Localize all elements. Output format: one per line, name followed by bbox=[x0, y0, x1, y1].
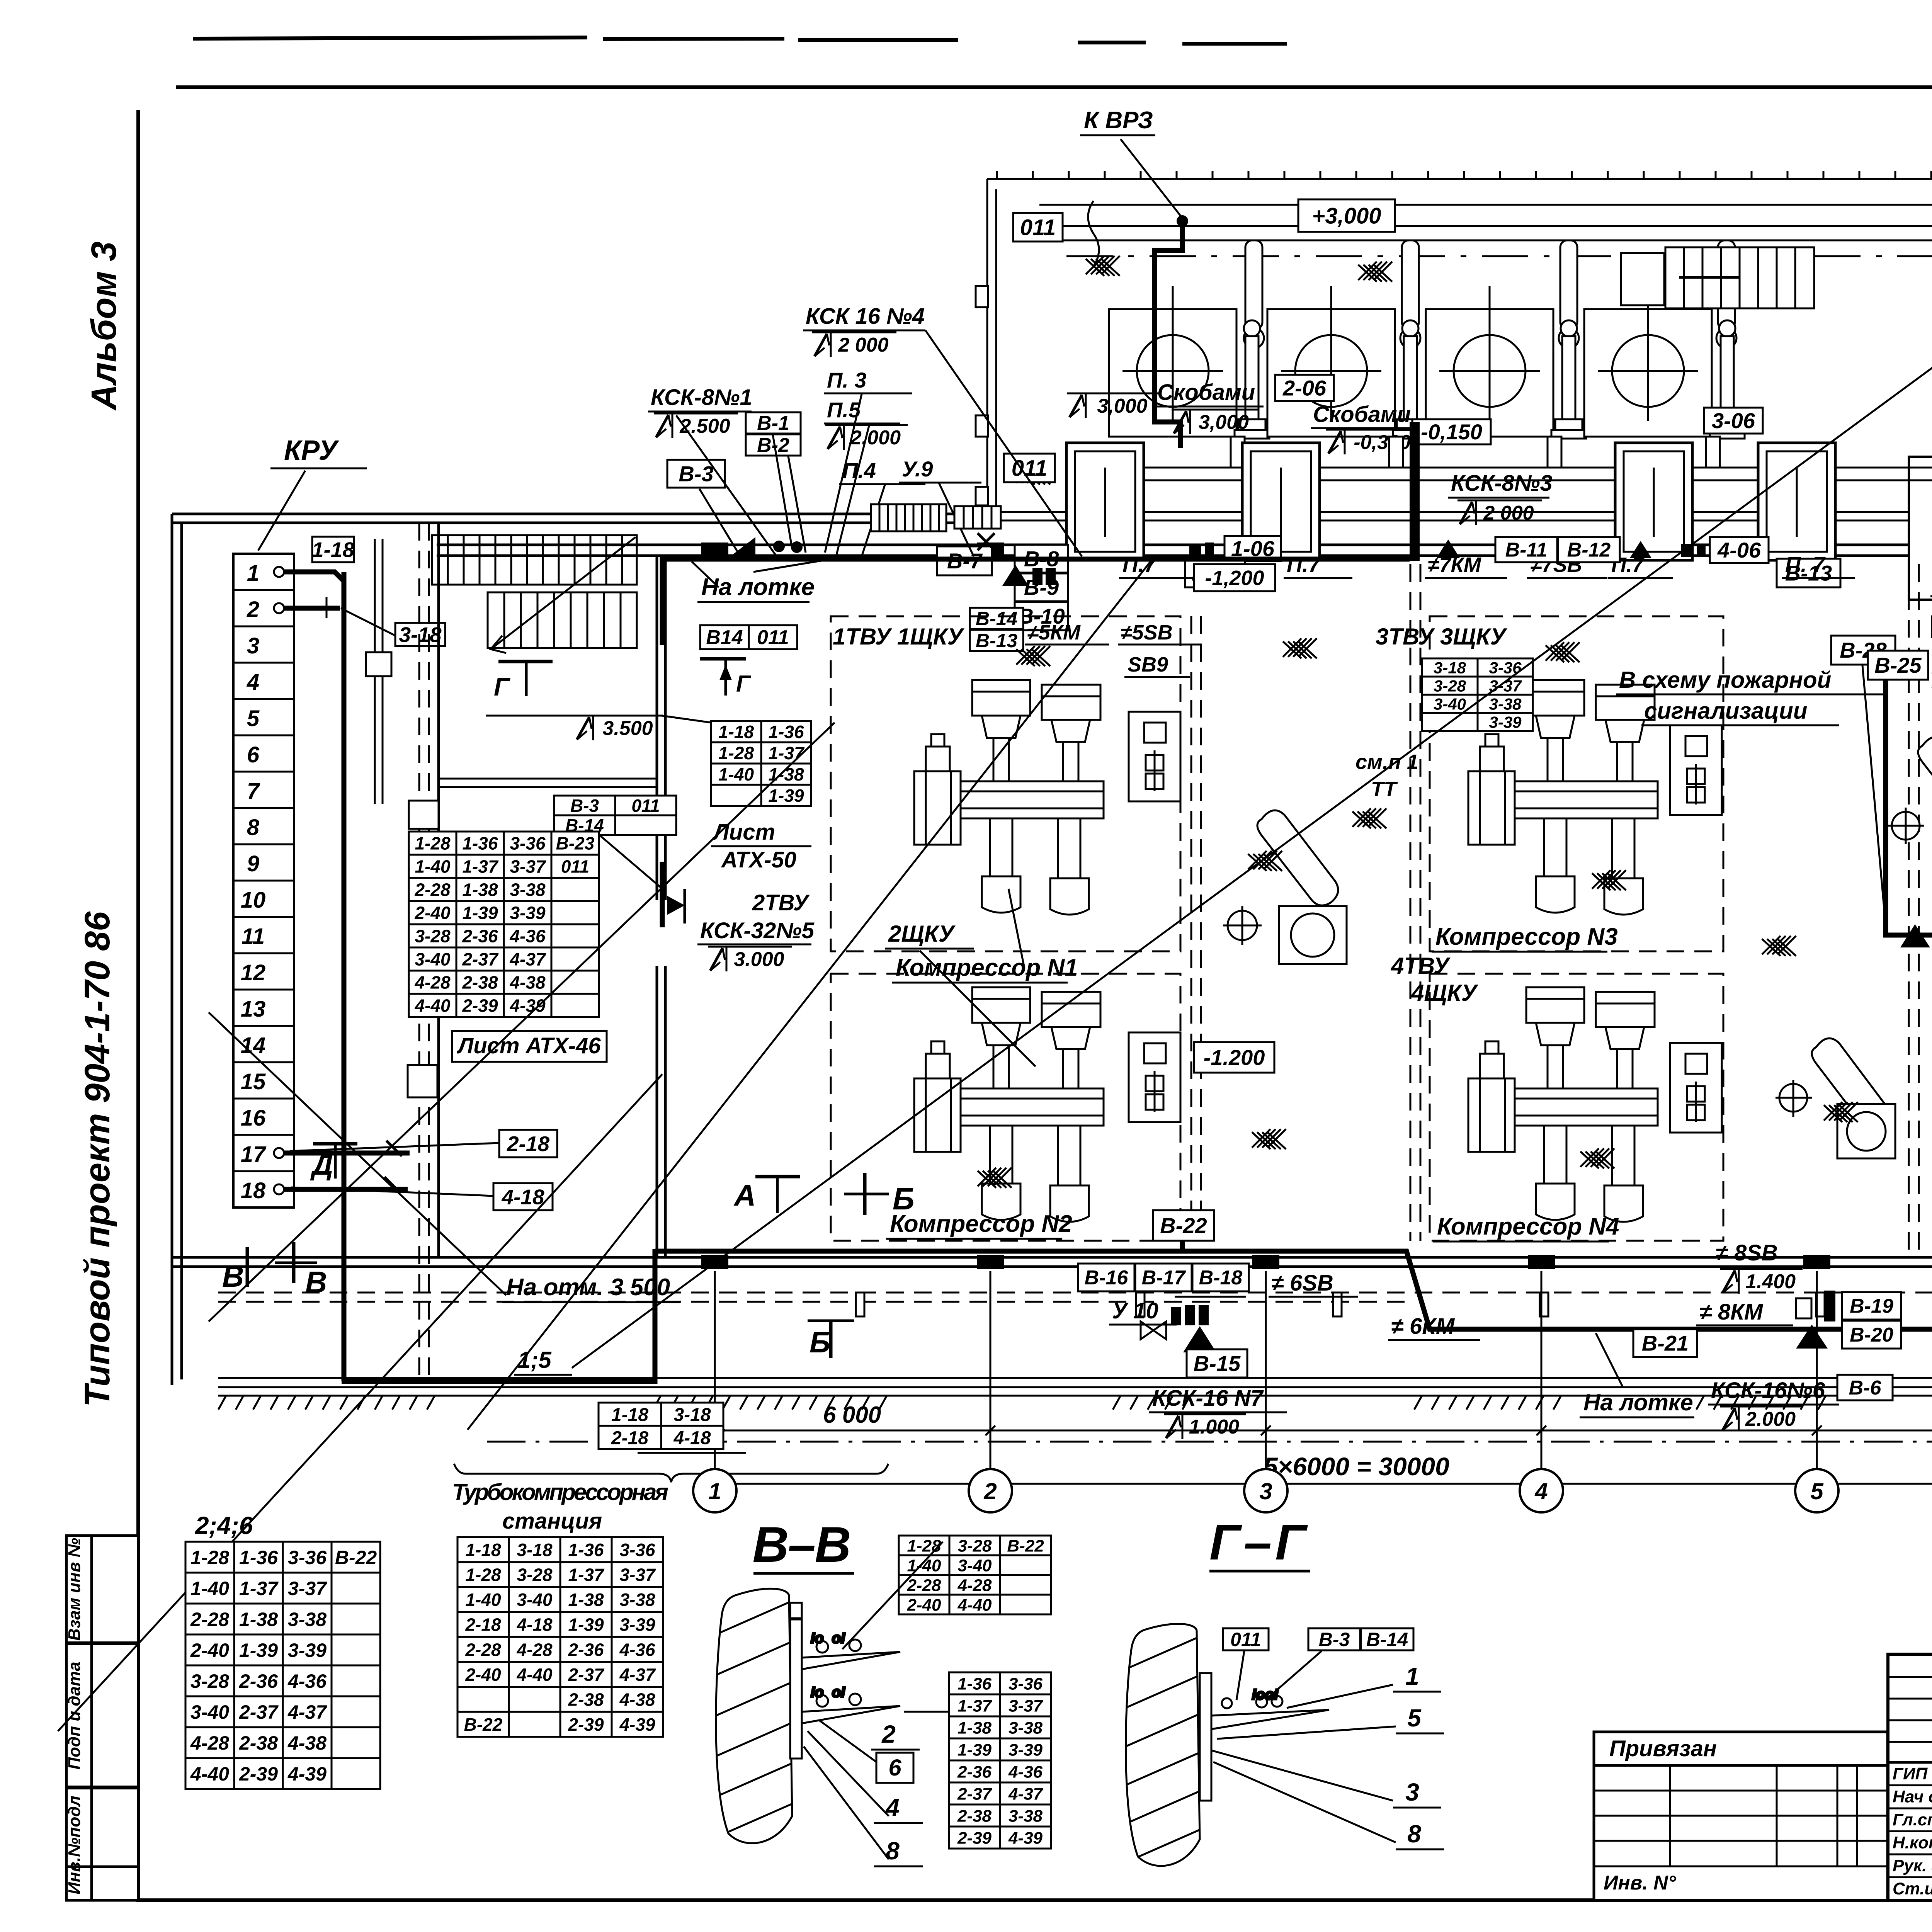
small wall stubs below south wall bbox=[856, 1293, 1932, 1316]
svg-text:В-21: В-21 bbox=[1642, 1331, 1689, 1355]
svg-text:4-37: 4-37 bbox=[287, 1701, 327, 1723]
Лист АТХ-46 caption box bbox=[452, 1031, 607, 1062]
elevation КСК-8№1 bbox=[654, 413, 738, 438]
west outer wall bbox=[172, 514, 182, 1385]
svg-text:3-18: 3-18 bbox=[1434, 659, 1466, 677]
valve symbol near У9 bbox=[978, 533, 995, 550]
svg-text:1-39: 1-39 bbox=[768, 786, 804, 806]
svg-text:АТХ-50: АТХ-50 bbox=[721, 847, 796, 872]
svg-text:4-28: 4-28 bbox=[516, 1639, 552, 1660]
text ≠ 6КМ bbox=[1388, 1314, 1480, 1340]
svg-text:7: 7 bbox=[247, 779, 260, 804]
text Компрессор N2 bbox=[886, 1211, 1072, 1239]
north wall of КРУ room bbox=[172, 514, 987, 523]
overhead duct lines bbox=[1039, 205, 1932, 256]
turbo hall west wall bbox=[976, 179, 996, 514]
svg-text:Д: Д bbox=[310, 1148, 333, 1181]
letter Б cut upper bbox=[893, 1182, 915, 1216]
label box В-22 bbox=[1153, 1210, 1214, 1241]
svg-text:2-36: 2-36 bbox=[239, 1670, 278, 1692]
long line from 3.500 bbox=[486, 715, 575, 717]
svg-text:10: 10 bbox=[241, 888, 266, 913]
svg-text:ГИП: ГИП bbox=[1893, 1764, 1928, 1783]
text На лотке bbox=[1580, 1389, 1694, 1417]
svg-text:1-37: 1-37 bbox=[239, 1578, 279, 1599]
svg-text:Гл.спец: Гл.спец bbox=[1893, 1810, 1932, 1829]
text КСК-16 N7 bbox=[1149, 1386, 1287, 1412]
text 4ЩКУ bbox=[1411, 980, 1479, 1006]
svg-text:Г: Г bbox=[494, 672, 510, 701]
svg-text:-1,200: -1,200 bbox=[1205, 566, 1264, 590]
floor channel square 3 bbox=[1615, 443, 1692, 560]
text КСК-8№3 bbox=[1448, 471, 1553, 498]
floor channel square 2 bbox=[1242, 443, 1320, 560]
label box В-11 bbox=[1495, 537, 1557, 562]
label box В-14 bbox=[970, 608, 1023, 629]
svg-text:3-38: 3-38 bbox=[510, 880, 545, 900]
svg-text:1-28: 1-28 bbox=[718, 743, 754, 763]
svg-text:3-06: 3-06 bbox=[1712, 408, 1755, 433]
torn page edge line segments top bbox=[193, 37, 1932, 87]
svg-text:Б: Б bbox=[810, 1326, 830, 1359]
main hall north wall bbox=[437, 545, 1932, 556]
В-В position labels 2 6 4 8 bbox=[871, 1720, 923, 1866]
svg-text:4-40: 4-40 bbox=[190, 1763, 229, 1785]
svg-text:2-40: 2-40 bbox=[414, 903, 450, 923]
svg-text:4-18: 4-18 bbox=[673, 1428, 711, 1448]
svg-text:4-37: 4-37 bbox=[619, 1665, 656, 1685]
turbo compressor unit 1 bbox=[1109, 309, 1269, 439]
svg-text:Нач отд.: Нач отд. bbox=[1893, 1787, 1932, 1806]
label box 1-18 bbox=[312, 537, 354, 562]
text ≠ 8КМ bbox=[1696, 1299, 1793, 1325]
svg-text:2-28: 2-28 bbox=[906, 1576, 941, 1595]
compressor N3 bbox=[1468, 680, 1658, 915]
lower pipe band of turbo hall bbox=[1078, 437, 1932, 480]
label box В-25 bbox=[1868, 651, 1928, 680]
crosshatch mark bbox=[1634, 260, 1668, 280]
svg-text:В-25: В-25 bbox=[1874, 653, 1922, 677]
Г-Г leaders from boxes bbox=[1236, 1651, 1321, 1700]
stairs block in hall bbox=[1621, 247, 1814, 308]
svg-text:1-18: 1-18 bbox=[718, 722, 754, 742]
label box 4-18 bbox=[493, 1183, 553, 1210]
svg-text:ТТ: ТТ bbox=[1371, 777, 1398, 801]
text П.7 bbox=[1284, 552, 1352, 578]
black flag symbol КСК-32 bbox=[667, 896, 685, 915]
svg-text:2-38: 2-38 bbox=[957, 1806, 992, 1825]
text 4ТВУ bbox=[1391, 953, 1451, 979]
table 1-18 3-18 bottom bbox=[599, 1403, 723, 1449]
svg-text:9: 9 bbox=[247, 851, 259, 876]
machine bay Компрессор N3 dashed outline bbox=[1430, 616, 1723, 951]
text П.4 bbox=[839, 458, 925, 484]
svg-text:Лист АТХ-46: Лист АТХ-46 bbox=[456, 1033, 601, 1058]
long diagonal leader from В-3 area to На отм bbox=[209, 1012, 506, 1295]
text КСК-8№1 bbox=[648, 385, 752, 412]
svg-text:В-3: В-3 bbox=[570, 796, 599, 816]
machine bay Компрессор N2 dashed outline bbox=[831, 974, 1180, 1241]
leaders П3 П5 В1 В2 down to wall bbox=[676, 394, 974, 556]
svg-text:Ст.инж: Ст.инж bbox=[1893, 1879, 1932, 1898]
svg-text:3-40: 3-40 bbox=[517, 1590, 552, 1610]
svg-text:2-37: 2-37 bbox=[462, 949, 498, 969]
svg-text:В-6: В-6 bbox=[1849, 1377, 1882, 1399]
svg-text:3-37: 3-37 bbox=[1489, 677, 1522, 695]
diagonal vent duct right-strip lower bbox=[1776, 1038, 1895, 1158]
svg-text:Инв.№подл: Инв.№подл bbox=[65, 1796, 84, 1895]
svg-text:4-38: 4-38 bbox=[509, 973, 545, 993]
letter Г cut mark bbox=[736, 671, 752, 697]
svg-text:1-39: 1-39 bbox=[239, 1639, 278, 1661]
text 2ЩКУ bbox=[885, 921, 974, 949]
black wiggle symbols on wall row bbox=[1189, 539, 1706, 558]
svg-text:1-39: 1-39 bbox=[462, 903, 498, 923]
label box В-7 bbox=[937, 546, 992, 575]
label box В-9 bbox=[1015, 573, 1068, 601]
svg-text:3-37: 3-37 bbox=[619, 1565, 656, 1585]
svg-text:В-23: В-23 bbox=[556, 833, 595, 854]
svg-text:5: 5 bbox=[1407, 1704, 1422, 1732]
label box -0,150 bbox=[1412, 419, 1491, 444]
svg-text:У 10: У 10 bbox=[1112, 1298, 1158, 1323]
svg-text:4-39: 4-39 bbox=[287, 1763, 327, 1785]
svg-text:Іo oІ: Іo oІ bbox=[811, 1630, 845, 1646]
text 2;12;17 bbox=[638, 1425, 746, 1453]
svg-text:см.п 1: см.п 1 bbox=[1355, 750, 1418, 774]
thick cable from К ВРЗ down to channel bbox=[1155, 224, 1182, 448]
label box В-19 bbox=[1842, 1292, 1901, 1320]
svg-text:-0,150: -0,150 bbox=[1421, 420, 1482, 444]
svg-text:1.400: 1.400 bbox=[1745, 1270, 1796, 1293]
svg-text:Типовой проект 904-1-70 86: Типовой проект 904-1-70 86 bbox=[78, 911, 117, 1407]
thick cable from КРУ row 18 bbox=[284, 1187, 408, 1192]
text Скобами bbox=[1155, 380, 1264, 406]
axis circle 4 bbox=[1520, 1469, 1563, 1512]
lower right room of hall with round unit bbox=[1909, 457, 1932, 600]
axis circle 1 bbox=[693, 1469, 736, 1512]
svg-text:Іo oІ: Іo oІ bbox=[811, 1684, 845, 1701]
svg-text:2.500: 2.500 bbox=[679, 415, 730, 437]
leader На лотке bbox=[753, 559, 831, 572]
svg-text:В-17: В-17 bbox=[1142, 1267, 1186, 1289]
text 3ТВУ 3ЩКУ bbox=[1376, 624, 1507, 650]
svg-text:4-39: 4-39 bbox=[1008, 1828, 1043, 1847]
bay control cabinet bbox=[1129, 1032, 1180, 1122]
label box -1.200 mid bbox=[1194, 1042, 1274, 1073]
svg-text:КСК-16 N7: КСК-16 N7 bbox=[1152, 1386, 1264, 1411]
cut mark Б lower left bbox=[808, 1321, 854, 1358]
svg-text:16: 16 bbox=[241, 1105, 266, 1131]
svg-text:На отм. 3 500: На отм. 3 500 bbox=[506, 1274, 670, 1301]
svg-text:12: 12 bbox=[241, 960, 266, 985]
svg-text:2 000: 2 000 bbox=[838, 334, 888, 356]
svg-text:3-28: 3-28 bbox=[517, 1565, 552, 1585]
svg-text:4-36: 4-36 bbox=[1008, 1762, 1043, 1781]
svg-text:На лотке: На лотке bbox=[1583, 1389, 1693, 1415]
table Лист АТХ-46 cables bbox=[409, 832, 599, 1017]
svg-text:5: 5 bbox=[1810, 1478, 1824, 1504]
svg-text:1-39: 1-39 bbox=[568, 1615, 604, 1635]
svg-text:8: 8 bbox=[886, 1837, 900, 1865]
wall piers on south wall bbox=[701, 1255, 1830, 1269]
text станция bbox=[502, 1509, 602, 1534]
corridor dashed verticals x3655 bbox=[1191, 564, 1919, 1256]
leader from АТХ-46 table bbox=[599, 835, 662, 889]
svg-text:В-22: В-22 bbox=[1160, 1213, 1207, 1238]
crosshatch mark bbox=[1592, 870, 1626, 890]
svg-text:≠ 8SВ: ≠ 8SВ bbox=[1716, 1240, 1778, 1265]
text ≠ 8SВ bbox=[1700, 1240, 1801, 1267]
svg-text:2-18: 2-18 bbox=[611, 1428, 648, 1448]
label box В-3 Г-Г bbox=[1308, 1628, 1360, 1650]
label box В-6 lower bbox=[1837, 1375, 1893, 1400]
crosshatch mark bbox=[1358, 262, 1392, 282]
svg-text:3ТВУ 3ЩКУ: 3ТВУ 3ЩКУ bbox=[1376, 624, 1507, 650]
svg-text:8: 8 bbox=[1407, 1820, 1421, 1848]
text К ВРЗ bbox=[1080, 107, 1155, 135]
dashed cable riser column x1085-1110 bbox=[419, 523, 429, 1379]
svg-text:1-18: 1-18 bbox=[465, 1540, 501, 1560]
turbo compressor unit 3 bbox=[1426, 309, 1586, 439]
cut mark Г lower bbox=[498, 662, 553, 696]
svg-text:2-36: 2-36 bbox=[462, 926, 498, 946]
svg-text:SВ9: SВ9 bbox=[1128, 653, 1168, 676]
svg-text:В-16: В-16 bbox=[1085, 1267, 1129, 1289]
svg-text:В-19: В-19 bbox=[1850, 1295, 1893, 1318]
axis circle 2 bbox=[969, 1469, 1012, 1512]
svg-text:В: В bbox=[222, 1259, 244, 1293]
elevation КСК-16№7 bbox=[1164, 1414, 1246, 1439]
brace under tables bbox=[454, 1464, 888, 1482]
letter А cut bbox=[733, 1178, 756, 1212]
cut mark Д upper left bbox=[313, 1144, 357, 1179]
crosshatch mark bbox=[1352, 808, 1386, 828]
label box В-20 bbox=[1842, 1321, 1901, 1349]
svg-text:Подп и дата: Подп и дата bbox=[65, 1662, 84, 1769]
elevation КСК-8№3 bbox=[1458, 500, 1542, 525]
svg-text:В-22: В-22 bbox=[1007, 1536, 1044, 1555]
svg-text:4: 4 bbox=[885, 1794, 900, 1821]
svg-text:2ЩКУ: 2ЩКУ bbox=[888, 921, 956, 947]
crosshatch mark bbox=[1824, 1102, 1858, 1122]
svg-text:1-36: 1-36 bbox=[957, 1674, 992, 1693]
crosshatch mark bbox=[1283, 638, 1317, 658]
letter В cut 2 bbox=[305, 1265, 327, 1299]
thick cable along north wall bbox=[662, 559, 1410, 645]
svg-text:К ВРЗ: К ВРЗ bbox=[1084, 107, 1153, 134]
thick bottom horizontal from trunk with step up bbox=[342, 1249, 655, 1381]
svg-text:2;4;6: 2;4;6 bbox=[195, 1512, 253, 1539]
svg-text:011: 011 bbox=[757, 626, 789, 649]
Привязан box bbox=[1594, 1732, 1888, 1765]
compressor N1 bbox=[914, 680, 1104, 915]
svg-text:≠5КМ: ≠5КМ bbox=[1027, 621, 1081, 644]
svg-text:4-38: 4-38 bbox=[619, 1689, 655, 1709]
text 2;4;6 bbox=[191, 1512, 274, 1542]
svg-text:ІooІ: ІooІ bbox=[1252, 1687, 1279, 1703]
svg-text:2-39: 2-39 bbox=[239, 1763, 278, 1785]
section title В-В bbox=[753, 1516, 854, 1573]
caption Турбокомпрессорная bbox=[452, 1479, 668, 1505]
svg-text:4-40: 4-40 bbox=[516, 1665, 552, 1685]
label box 1-06 bbox=[1225, 536, 1281, 561]
leader КСК16№4 bbox=[925, 330, 1082, 556]
А axis long lower lines bbox=[218, 1378, 1932, 1387]
svg-text:В-14: В-14 bbox=[976, 608, 1017, 629]
signature block bbox=[1888, 1654, 1932, 1900]
black triangle junction SB3.1 bbox=[1900, 924, 1930, 947]
svg-text:3-40: 3-40 bbox=[415, 949, 450, 969]
svg-text:3-39: 3-39 bbox=[1009, 1740, 1043, 1759]
duct risers between machines bbox=[1244, 240, 1736, 348]
svg-text:2-38: 2-38 bbox=[462, 973, 498, 993]
leader 2ЩКУ bbox=[920, 951, 1036, 1066]
Г-Г rack and bracket bbox=[1200, 1673, 1329, 1801]
letter В cut 1 bbox=[222, 1259, 244, 1293]
label box В-1 bbox=[746, 412, 801, 435]
svg-text:2-28: 2-28 bbox=[190, 1609, 229, 1630]
text КСК-16№6 bbox=[1708, 1378, 1839, 1405]
svg-text:В-12: В-12 bbox=[1567, 539, 1611, 561]
svg-text:П.7: П.7 bbox=[1287, 552, 1321, 577]
svg-text:3.500: 3.500 bbox=[602, 717, 653, 740]
svg-text:1-36: 1-36 bbox=[768, 722, 804, 742]
crosshatch mark bbox=[1086, 256, 1120, 276]
turbo hall top edge with ticks bbox=[987, 171, 1932, 179]
svg-text:6: 6 bbox=[247, 742, 260, 767]
У10 valve bowtie bbox=[1141, 1321, 1166, 1339]
text Скобами bbox=[1311, 402, 1414, 428]
svg-text:2-40: 2-40 bbox=[190, 1639, 229, 1661]
svg-text:1: 1 bbox=[1405, 1662, 1419, 1690]
svg-text:3-37: 3-37 bbox=[510, 857, 546, 877]
В-В leaders bbox=[804, 1542, 949, 1859]
long diagonal leaders across lower-left bbox=[58, 317, 1932, 1731]
svg-text:1-18: 1-18 bbox=[611, 1405, 648, 1425]
svg-text:1: 1 bbox=[247, 561, 259, 586]
svg-text:3-39: 3-39 bbox=[510, 903, 545, 923]
label box В-12 bbox=[1558, 537, 1620, 562]
inventory stamp column table bbox=[66, 1536, 138, 1900]
svg-text:Компрессор N4: Компрессор N4 bbox=[1437, 1213, 1619, 1240]
svg-text:Рук. гр.: Рук. гр. bbox=[1893, 1856, 1932, 1875]
svg-text:3-18: 3-18 bbox=[517, 1540, 552, 1560]
diagonal vent duct mid-left bbox=[1223, 810, 1347, 964]
svg-text:3.000: 3.000 bbox=[734, 948, 784, 971]
main hall south wall bbox=[172, 1257, 1932, 1267]
text 1ТВУ 1ЩКУ bbox=[833, 624, 964, 650]
text ТТ bbox=[1371, 777, 1398, 801]
svg-text:1;5: 1;5 bbox=[518, 1347, 552, 1373]
svg-text:3-37: 3-37 bbox=[1009, 1696, 1044, 1715]
svg-text:Скобами: Скобами bbox=[1313, 402, 1411, 427]
svg-text:1-28: 1-28 bbox=[907, 1536, 941, 1555]
svg-text:3-28: 3-28 bbox=[1434, 677, 1466, 695]
black junction bottom middle-right bbox=[1796, 1325, 1828, 1349]
svg-text:Компрессор N3: Компрессор N3 bbox=[1435, 923, 1618, 950]
table В-3 В-14 011 bbox=[554, 796, 676, 835]
section title Г-Г bbox=[1209, 1514, 1310, 1571]
text 2ТВУ bbox=[752, 890, 810, 915]
svg-text:3: 3 bbox=[1405, 1778, 1419, 1806]
svg-text:3-39: 3-39 bbox=[288, 1639, 327, 1661]
svg-text:1-38: 1-38 bbox=[957, 1718, 992, 1737]
axis circle 3 bbox=[1244, 1469, 1287, 1512]
В-В rack and brackets bbox=[790, 1603, 900, 1759]
svg-text:1-37: 1-37 bbox=[462, 857, 498, 877]
svg-text:1: 1 bbox=[708, 1478, 721, 1504]
svg-text:3-38: 3-38 bbox=[619, 1590, 655, 1610]
svg-text:В схему пожарной: В схему пожарной bbox=[1619, 667, 1831, 693]
thick cable bundle bar between channels bbox=[1410, 422, 1420, 561]
text см.п 1 bbox=[1355, 750, 1418, 774]
axis А dash-dot line bbox=[487, 1441, 1932, 1443]
svg-text:3-39: 3-39 bbox=[1489, 713, 1522, 731]
text Компрессор N4 bbox=[1433, 1213, 1619, 1242]
svg-text:Взам инв №: Взам инв № bbox=[65, 1538, 84, 1641]
thick cable SB run vertical bbox=[1886, 657, 1932, 935]
text П. 3 bbox=[824, 368, 912, 393]
svg-text:КСК-8№1: КСК-8№1 bbox=[651, 385, 752, 410]
crosshatch mark bbox=[1580, 1148, 1614, 1168]
svg-text:П.7: П.7 bbox=[1122, 552, 1157, 577]
elevation КСК16№4 bbox=[812, 332, 896, 357]
svg-text:1-36: 1-36 bbox=[239, 1547, 278, 1568]
svg-text:4-36: 4-36 bbox=[509, 926, 545, 946]
thick stub at 2ТВУ bbox=[660, 862, 665, 927]
junction square 1 on riser bbox=[366, 652, 391, 676]
svg-text:Компрессор N1: Компрессор N1 bbox=[896, 954, 1078, 981]
svg-text:В-3: В-3 bbox=[1319, 1629, 1350, 1650]
svg-text:В14: В14 bbox=[706, 626, 743, 649]
text ≠5SВ bbox=[1118, 621, 1202, 645]
elevation -0,300 bbox=[1326, 430, 1420, 454]
dim 6000 bbox=[823, 1402, 881, 1428]
elevation 3,000 in hall bbox=[1067, 393, 1159, 418]
thick cable from КРУ row 17 bbox=[284, 1151, 410, 1156]
svg-text:4-36: 4-36 bbox=[287, 1670, 327, 1692]
text КМЗ bbox=[1930, 571, 1932, 596]
text 1;5 bbox=[514, 1347, 572, 1375]
svg-text:П. 3: П. 3 bbox=[827, 368, 867, 392]
elevation 8SB bbox=[1720, 1269, 1803, 1294]
svg-text:1-38: 1-38 bbox=[462, 880, 498, 900]
svg-text:Г: Г bbox=[736, 671, 752, 697]
svg-text:2-36: 2-36 bbox=[957, 1762, 992, 1781]
svg-text:13: 13 bbox=[241, 997, 266, 1022]
text В схему пожарной bbox=[1616, 667, 1884, 694]
svg-text:А: А bbox=[733, 1178, 756, 1212]
svg-text:КСК-32№5: КСК-32№5 bbox=[700, 918, 815, 943]
label box 4-06 bbox=[1710, 537, 1769, 563]
text Компрессор N1 bbox=[892, 954, 1078, 983]
svg-text:3-38: 3-38 bbox=[1009, 1806, 1043, 1825]
svg-text:2-06: 2-06 bbox=[1282, 376, 1327, 400]
svg-text:3-36: 3-36 bbox=[619, 1540, 655, 1560]
svg-text:2-39: 2-39 bbox=[568, 1714, 604, 1735]
compressor N4 bbox=[1468, 987, 1658, 1222]
svg-text:1-18: 1-18 bbox=[312, 537, 354, 561]
svg-text:1-37: 1-37 bbox=[568, 1565, 604, 1585]
svg-text:8: 8 bbox=[247, 815, 260, 840]
svg-text:1-36: 1-36 bbox=[462, 833, 498, 854]
label box В-28 bbox=[1831, 636, 1895, 665]
svg-text:2: 2 bbox=[247, 597, 259, 622]
svg-text:В: В bbox=[305, 1265, 327, 1299]
floor channel square 4 bbox=[1758, 443, 1835, 560]
svg-text:4-40: 4-40 bbox=[957, 1595, 992, 1614]
